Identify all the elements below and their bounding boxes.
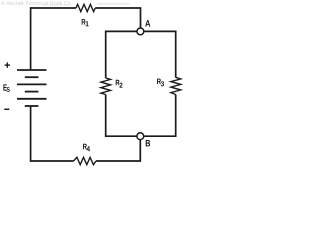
resistor R2 [101, 78, 111, 95]
watermark text © Aircraft Technical Book Co [1, 1, 71, 5]
resistor R4 [74, 157, 97, 164]
watermark faint line [97, 3, 130, 5]
label R2 [116, 80, 123, 88]
resistor R3 [171, 77, 181, 94]
label - (negative terminal) [4, 108, 9, 110]
label R4 [83, 144, 90, 152]
node B [137, 133, 144, 140]
label + (positive terminal) [5, 62, 10, 67]
resistor R1 [76, 4, 95, 11]
label B [146, 140, 150, 146]
wire: battery bottom to bottom rail left [31, 106, 74, 161]
label A [145, 20, 150, 26]
wire: bottom rail right up to node B [96, 136, 140, 161]
wire: top rail from R1 down to node A [95, 8, 140, 29]
wire: inner bottom rail between branches [106, 95, 176, 137]
battery ES plates [17, 70, 47, 106]
label R1 [82, 19, 89, 26]
label ES (source voltage) [3, 84, 9, 91]
node A [137, 28, 144, 35]
wire: inner top rail between branches [106, 31, 176, 78]
label R3 [157, 79, 164, 87]
wire: left vertical + top rail to R1 [31, 8, 76, 70]
watermark underline [42, 4, 71, 6]
